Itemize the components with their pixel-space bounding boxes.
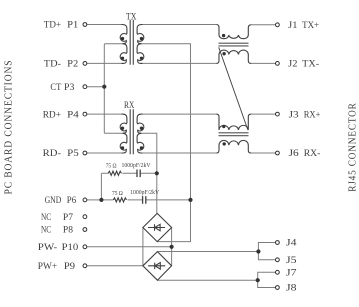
svg-text:PC BOARD CONNECTIONS: PC BOARD CONNECTIONS — [3, 60, 15, 195]
svg-text:NC: NC — [41, 225, 51, 236]
junction node B row2 — [188, 198, 192, 202]
wire L2 top to J3 — [251, 113, 275, 115]
wire J4 J5 bracket — [258, 243, 275, 260]
capacitor C2 1000pF/2kV — [143, 196, 146, 204]
svg-text:GND: GND — [45, 195, 62, 206]
wire node B vertical to D1 bottom — [157, 200, 190, 242]
resistor R2 75 ohm — [113, 198, 126, 202]
wire P10 to node D — [87, 246, 172, 248]
svg-text:P5: P5 — [67, 148, 79, 159]
wire T2 secondary top to L2 — [143, 113, 217, 115]
wire P1 to T1 primary top — [87, 24, 122, 26]
svg-text:CT: CT — [50, 82, 61, 93]
terminal J6 — [276, 151, 280, 155]
choke L1 top winding — [216, 25, 251, 39]
polarity dot L2 bottom — [223, 142, 226, 145]
svg-text:J6: J6 — [289, 148, 299, 159]
junction J7 J8 node — [256, 278, 260, 282]
wire T1 secondary bottom to L1 — [143, 62, 217, 64]
choke L2 top winding — [216, 114, 251, 130]
svg-text:J8: J8 — [286, 283, 297, 294]
svg-text:RX+: RX+ — [304, 109, 321, 120]
svg-text:75 Ω: 75 Ω — [112, 191, 123, 197]
svg-text:TX+: TX+ — [302, 20, 319, 31]
terminal P6 — [83, 198, 87, 202]
svg-text:J1: J1 — [288, 20, 297, 31]
wire crossover diagonal L1 to L2 — [219, 47, 248, 130]
suppressor D1 diode — [148, 224, 165, 231]
wire CT vertical (T1 center tap to P3 to T2 center tap) — [104, 44, 124, 134]
wire L1 top to J1 — [251, 24, 275, 26]
terminal J2 — [276, 62, 280, 66]
svg-text:PW+: PW+ — [38, 261, 58, 272]
transformer T1 primary winding — [120, 25, 127, 44]
svg-text:RX-: RX- — [304, 148, 321, 159]
junction node C row1 — [155, 171, 159, 175]
svg-text:TD-: TD- — [44, 59, 61, 70]
svg-text:P10: P10 — [62, 242, 79, 253]
svg-text:1000pF/2kV: 1000pF/2kV — [122, 163, 152, 169]
wire P3 to CT node — [87, 86, 104, 88]
svg-text:P6: P6 — [67, 195, 76, 206]
svg-text:J5: J5 — [286, 255, 297, 266]
choke L2 bottom winding — [216, 140, 251, 153]
suppressor D2 diode — [148, 263, 165, 270]
svg-text:RD+: RD+ — [43, 109, 62, 120]
junction node D PW- — [170, 245, 174, 249]
svg-text:P2: P2 — [67, 59, 78, 70]
capacitor C1 1000pF/2kV — [137, 170, 140, 178]
terminal P7 — [83, 215, 87, 219]
svg-text:TX: TX — [126, 12, 137, 22]
wire D1 right to D2 right — [171, 228, 173, 266]
polarity dot L2 top — [222, 125, 225, 128]
transformer T1 core — [130, 20, 133, 65]
svg-text:PW-: PW- — [38, 242, 57, 253]
transformer T2 core — [130, 109, 133, 154]
wire D2 top to J4 J5 junction — [157, 251, 258, 253]
svg-text:P4: P4 — [67, 109, 79, 120]
wire P2 to T1 primary bottom — [87, 62, 122, 64]
svg-text:NC: NC — [41, 212, 51, 223]
svg-text:P8: P8 — [63, 225, 73, 236]
wire T2 secondary center tap to node C — [141, 133, 157, 173]
choke L2 core — [219, 133, 249, 136]
svg-text:J2: J2 — [288, 59, 297, 70]
svg-text:J7: J7 — [286, 268, 297, 279]
polarity dot T1 secondary — [140, 37, 143, 40]
wire node A vertical (R1 to GND node) — [100, 173, 102, 200]
resistor R1 75 ohm — [108, 171, 121, 175]
polarity dot L1 bottom — [222, 52, 225, 55]
svg-text:RD-: RD- — [43, 148, 61, 159]
svg-text:P3: P3 — [64, 82, 74, 93]
polarity dot T2 primary — [121, 127, 124, 130]
terminal P8 — [83, 228, 87, 232]
polarity dot L1 top — [222, 34, 225, 37]
terminal P3 — [83, 85, 87, 89]
polarity dot T2 secondary — [140, 127, 143, 130]
terminal P1 — [83, 23, 87, 27]
wire L1 bottom to J2 — [251, 62, 275, 64]
svg-text:P7: P7 — [63, 212, 73, 223]
wire R2 C2 row GND to node B — [101, 199, 190, 201]
choke L1 bottom winding — [216, 50, 251, 63]
transformer T2 primary winding — [120, 114, 127, 133]
terminal P4 — [83, 112, 87, 116]
svg-text:J4: J4 — [286, 238, 297, 249]
svg-text:RX: RX — [124, 100, 135, 110]
terminal J4 — [276, 241, 280, 245]
transformer T1 secondary winding — [137, 25, 144, 44]
wire node C to D1 top — [156, 173, 158, 213]
suppressor D2 diamond — [143, 252, 172, 281]
terminal P10 — [83, 245, 87, 249]
wire P9 to D2 left — [87, 265, 143, 267]
svg-text:J3: J3 — [289, 109, 299, 120]
wire D1 left to D2 left — [142, 228, 144, 266]
polarity dot T1 primary — [121, 37, 124, 40]
svg-text:RJ45 CONNECTOR: RJ45 CONNECTOR — [347, 102, 359, 192]
transformer T2 secondary winding — [137, 114, 144, 133]
wire L2 bottom to J6 — [251, 152, 275, 154]
wire P5 to T2 primary bottom — [87, 152, 122, 154]
suppressor D1 diamond — [143, 213, 172, 241]
wire P6 to GND node — [87, 199, 101, 201]
svg-text:P9: P9 — [64, 261, 75, 272]
junction J4 J5 node — [256, 249, 260, 253]
wire D2 bottom to J7 J8 junction — [157, 279, 257, 281]
wire T1 secondary center tap to node B — [141, 44, 190, 198]
choke L1 core — [219, 43, 249, 46]
wire J7 J8 bracket — [258, 272, 276, 287]
junction GND node — [99, 198, 103, 202]
terminal J1 — [276, 23, 280, 27]
terminal P5 — [83, 151, 87, 155]
terminal J7 — [276, 270, 280, 274]
svg-text:TD+: TD+ — [44, 20, 62, 31]
terminal J3 — [276, 112, 280, 116]
terminal P2 — [83, 62, 87, 66]
terminal J8 — [276, 286, 280, 290]
terminal J5 — [276, 258, 280, 262]
junction CT node — [102, 85, 106, 89]
wire T1 secondary top to L1 — [143, 24, 217, 26]
wire P4 to T2 primary top — [87, 113, 122, 115]
svg-text:TX-: TX- — [302, 59, 319, 70]
wire T2 secondary bottom to L2 — [143, 152, 217, 154]
svg-text:P1: P1 — [67, 20, 78, 31]
svg-text:1000pF/2kV: 1000pF/2kV — [130, 190, 160, 196]
wire R1 C1 row node A to node C — [101, 172, 156, 174]
terminal P9 — [83, 264, 87, 268]
svg-text:75 Ω: 75 Ω — [106, 164, 117, 170]
